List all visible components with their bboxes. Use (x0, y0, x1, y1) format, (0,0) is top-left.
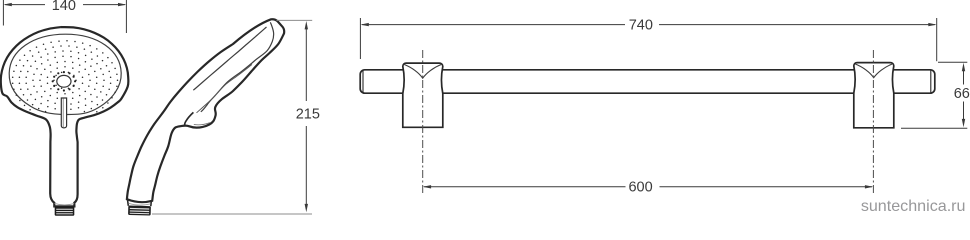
threaded connector (side) (128, 206, 151, 216)
svg-text:140: 140 (52, 0, 76, 14)
silhouette (127, 19, 284, 202)
left end cap line (362, 71, 364, 93)
spray nozzle dots (12, 40, 118, 112)
right centerline (872, 50, 874, 195)
right bracket (854, 63, 894, 128)
face front rim line A (201, 22, 274, 112)
left bracket (403, 63, 443, 127)
bar body (360, 70, 935, 93)
button lip top edge (185, 112, 194, 125)
svg-text:740: 740 (629, 17, 653, 33)
svg-text:66: 66 (954, 86, 970, 102)
svg-text:suntechnica.ru: suntechnica.ru (861, 197, 966, 215)
collar (55, 203, 75, 205)
face rim line A2 (197, 65, 253, 113)
connector collar (side) (128, 199, 152, 206)
mode lever tab (61, 98, 66, 128)
face rim line (9, 34, 121, 114)
head outer shell (1, 27, 129, 216)
button inner line (194, 123, 210, 125)
svg-text:600: 600 (628, 179, 652, 195)
right end cap line (930, 71, 932, 93)
threaded connector (55, 206, 75, 215)
svg-text:215: 215 (296, 107, 320, 123)
left centerline (422, 50, 424, 194)
face back rim line B with tick (193, 27, 266, 90)
center emblem (57, 75, 71, 87)
